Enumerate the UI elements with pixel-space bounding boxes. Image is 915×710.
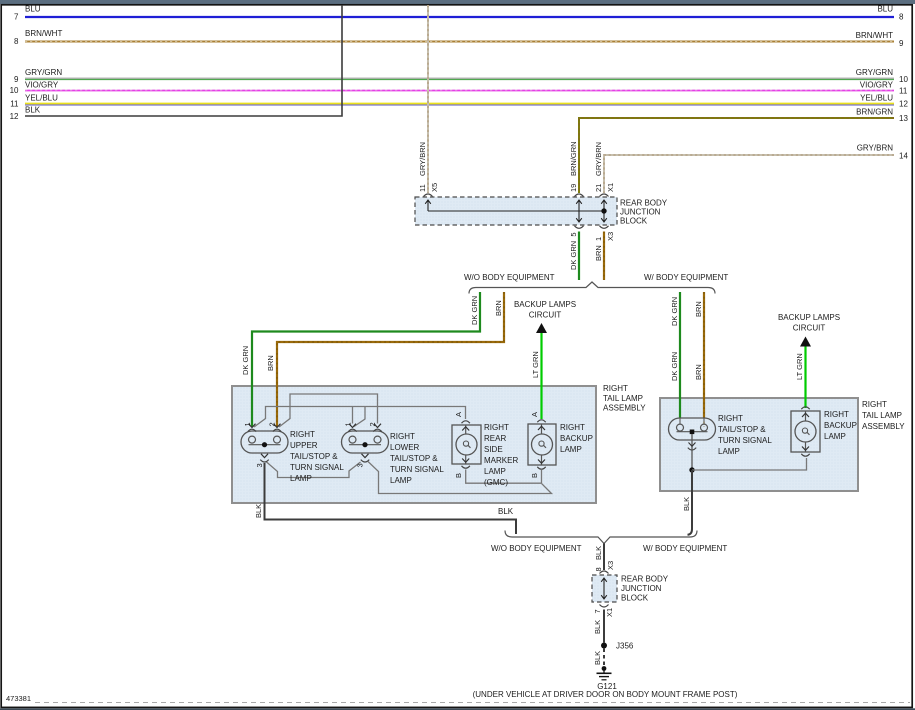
svg-text:BRN: BRN	[694, 301, 703, 317]
wire BLK 7 X1 below lower block	[593, 605, 614, 643]
svg-text:W/ BODY EQUIPMENT: W/ BODY EQUIPMENT	[644, 273, 728, 282]
svg-text:A: A	[530, 412, 539, 417]
wire GRY/BRN vertical from top border to junction block pin 11 X5	[418, 5, 439, 193]
rear body junction block (upper)	[415, 197, 668, 226]
svg-text:REAR BODY: REAR BODY	[620, 199, 668, 208]
svg-text:8: 8	[899, 13, 904, 22]
svg-text:BLU: BLU	[877, 5, 893, 14]
svg-text:X1: X1	[606, 183, 615, 192]
connector cups on block top edge	[424, 194, 609, 197]
svg-text:BACKUP LAMPS: BACKUP LAMPS	[514, 300, 576, 309]
marker lamp pin B	[454, 459, 470, 479]
svg-text:RIGHT: RIGHT	[390, 432, 415, 441]
wire BLU row 7/8	[14, 5, 904, 22]
junction block internal bus line	[428, 210, 604, 212]
svg-text:BACKUP: BACKUP	[560, 434, 593, 443]
svg-text:RIGHT: RIGHT	[290, 430, 315, 439]
svg-text:BLK: BLK	[682, 497, 691, 511]
svg-text:11: 11	[418, 184, 427, 192]
svg-text:BRN 1: BRN 1	[594, 237, 603, 261]
svg-text:LAMP: LAMP	[718, 447, 740, 456]
svg-text:X5: X5	[430, 183, 439, 192]
wire BLK out of right box	[682, 470, 692, 535]
svg-text:BLU: BLU	[25, 5, 41, 14]
wire DK GRN pin 5 below block	[569, 232, 579, 281]
svg-text:YEL/BLU: YEL/BLU	[860, 94, 893, 103]
svg-text:TAIL LAMP: TAIL LAMP	[862, 411, 902, 420]
svg-text:BLK: BLK	[254, 504, 263, 518]
wire BRN pin 1 X3 below block	[594, 232, 615, 281]
svg-text:11: 11	[899, 87, 908, 96]
svg-text:GRY/GRN: GRY/GRN	[856, 68, 893, 77]
svg-text:RIGHT: RIGHT	[484, 423, 509, 432]
wire BLK 8 X3 into lower junction block	[594, 544, 615, 574]
svg-text:ASSEMBLY: ASSEMBLY	[603, 404, 646, 413]
svg-text:BRN/WHT: BRN/WHT	[856, 31, 893, 40]
svg-text:BLOCK: BLOCK	[620, 217, 648, 226]
svg-text:BRN/GRN: BRN/GRN	[856, 108, 893, 117]
svg-text:12: 12	[899, 100, 908, 109]
page frame bottom band	[0, 708, 915, 710]
svg-text:TAIL/STOP &: TAIL/STOP &	[390, 454, 438, 463]
svg-text:BRN: BRN	[694, 364, 703, 380]
right tail lamp assembly box (left/large)	[232, 384, 646, 503]
svg-text:LT GRN: LT GRN	[531, 351, 540, 378]
svg-text:10: 10	[899, 75, 908, 84]
svg-text:8: 8	[14, 37, 19, 46]
junction block internal up-arrow at pin 11	[425, 200, 431, 211]
svg-text:12: 12	[10, 112, 19, 121]
backup lamps circuit arrow (left)	[536, 323, 547, 333]
svg-text:TAIL/STOP &: TAIL/STOP &	[290, 452, 338, 461]
wire BLK out of left box	[254, 463, 516, 534]
svg-text:BRN: BRN	[494, 300, 503, 316]
splice J356	[601, 642, 634, 651]
upper split brace	[469, 282, 715, 294]
lower merge brace	[505, 531, 697, 544]
right stadium bottom pin	[688, 434, 696, 470]
svg-text:BRN/GRN: BRN/GRN	[569, 141, 578, 176]
ground G121	[597, 666, 618, 691]
svg-text:J356: J356	[616, 642, 634, 651]
svg-text:ASSEMBLY: ASSEMBLY	[862, 422, 905, 431]
wire LT GRN (left backup lamp)	[531, 333, 542, 419]
right backup lamp pin A	[801, 407, 809, 417]
svg-text:11: 11	[10, 100, 19, 109]
backup lamps circuit arrow (right)	[800, 337, 811, 347]
svg-text:473381: 473381	[6, 694, 31, 703]
labels BRN/GRN 19 above junction block	[569, 141, 578, 192]
wire DK GRN right branch	[670, 292, 680, 424]
lamp: right rear side marker (GMC)	[452, 423, 518, 487]
upper lamp pin 3	[255, 454, 269, 468]
junction block internal double arrow at pin 21/1	[601, 200, 607, 222]
wire GRY/GRN row 9/10	[14, 68, 908, 84]
svg-text:GRY/BRN: GRY/BRN	[857, 144, 894, 153]
wire YEL/BLU row 11/12	[10, 94, 908, 109]
lamp: right tail/stop & turn signal (right box)	[669, 414, 773, 456]
svg-text:YEL/BLU: YEL/BLU	[25, 94, 58, 103]
svg-text:LAMP: LAMP	[560, 445, 582, 454]
svg-text:19: 19	[569, 184, 578, 192]
right backup lamp pin B	[801, 447, 809, 457]
svg-text:BACKUP: BACKUP	[824, 421, 857, 430]
right box internal junction dot	[689, 467, 694, 472]
svg-text:1: 1	[243, 422, 252, 426]
page footer dashed rule	[35, 702, 910, 704]
svg-text:LOWER: LOWER	[390, 443, 420, 452]
svg-text:BLK: BLK	[593, 651, 602, 665]
svg-text:JUNCTION: JUNCTION	[620, 208, 661, 217]
svg-text:GRY/BRN: GRY/BRN	[418, 142, 427, 176]
svg-text:RIGHT: RIGHT	[603, 384, 628, 393]
upper lamp pin 1	[243, 422, 256, 431]
svg-text:RIGHT: RIGHT	[560, 423, 585, 432]
svg-text:REAR BODY: REAR BODY	[621, 575, 669, 584]
svg-text:B: B	[454, 473, 463, 478]
lower lamp pin 3	[356, 454, 370, 468]
svg-text:21: 21	[594, 184, 603, 192]
left backup lamp pin A	[530, 412, 546, 430]
svg-text:BRN: BRN	[266, 355, 275, 371]
page frame top band	[0, 0, 915, 4]
lamp: right backup (left box)	[528, 423, 593, 465]
svg-text:BACKUP LAMPS: BACKUP LAMPS	[778, 313, 840, 322]
svg-text:W/O BODY EQUIPMENT: W/O BODY EQUIPMENT	[464, 273, 555, 282]
svg-text:DK GRN 5: DK GRN 5	[569, 232, 578, 270]
junction block internal double arrow at pin 19/5	[576, 200, 582, 222]
left backup lamp pin B	[530, 460, 546, 479]
connector cups on block bottom edge	[575, 226, 609, 229]
svg-text:LAMP: LAMP	[824, 432, 846, 441]
svg-text:BLK: BLK	[25, 106, 41, 115]
svg-text:W/O BODY EQUIPMENT: W/O BODY EQUIPMENT	[491, 544, 582, 553]
svg-text:CIRCUIT: CIRCUIT	[793, 324, 826, 333]
svg-text:3: 3	[255, 463, 264, 467]
svg-text:CIRCUIT: CIRCUIT	[529, 311, 562, 320]
wire GRY/BRN row 14 (right, turns down at x=604)	[604, 144, 908, 194]
svg-text:W/ BODY EQUIPMENT: W/ BODY EQUIPMENT	[643, 544, 727, 553]
svg-text:2: 2	[268, 422, 277, 426]
internal wire: upper pin2 to lower pin2 (bus y=394)	[279, 394, 378, 427]
svg-text:RIGHT: RIGHT	[718, 414, 743, 423]
svg-text:7: 7	[14, 13, 19, 22]
svg-text:BLOCK: BLOCK	[621, 594, 649, 603]
svg-text:TURN SIGNAL: TURN SIGNAL	[290, 463, 344, 472]
svg-text:VIO/GRY: VIO/GRY	[860, 81, 894, 90]
wire BRN/GRN row 13 (right, turns down at x=579)	[579, 108, 908, 194]
lamp: right upper tail/stop & turn signal	[241, 430, 344, 483]
upper lamp pin 2	[268, 422, 282, 431]
wire BRN left branch	[266, 292, 504, 427]
wire VIO/GRY row 10/11	[10, 81, 908, 96]
lower lamp pin 2	[368, 422, 382, 431]
internal wire: upper pin1 / lower pin1 / marker A (bus y=406.5)	[254, 407, 466, 428]
svg-text:10: 10	[10, 86, 19, 95]
svg-text:UPPER: UPPER	[290, 441, 318, 450]
svg-text:BLK: BLK	[593, 620, 602, 634]
svg-text:(GMC): (GMC)	[484, 478, 508, 487]
wire BRN right branch	[694, 292, 704, 427]
internal wire: upper pin3 to lower pin3 (bus y=477.5)	[266, 462, 361, 478]
svg-text:X1: X1	[605, 608, 614, 617]
svg-text:LT GRN: LT GRN	[795, 353, 804, 380]
svg-text:9: 9	[899, 39, 904, 48]
labels GRY/BRN 21 X1 above junction block	[594, 142, 615, 192]
svg-text:TAIL/STOP &: TAIL/STOP &	[718, 425, 766, 434]
junction dot inside block	[601, 208, 606, 213]
svg-text:RIGHT: RIGHT	[862, 400, 887, 409]
svg-text:GRY/GRN: GRY/GRN	[25, 68, 62, 77]
svg-text:8: 8	[594, 567, 603, 571]
internal wire to right backup lamp B	[692, 458, 807, 470]
internal wire: marker B to backup B (bus y=483.2)	[466, 470, 542, 484]
backup lamps circuit label (left)	[514, 300, 576, 320]
svg-text:TURN SIGNAL: TURN SIGNAL	[718, 436, 772, 445]
svg-text:GRY/BRN: GRY/BRN	[594, 142, 603, 176]
lower lamp pin 1	[344, 422, 357, 431]
wire DK GRN left branch	[241, 292, 480, 427]
svg-text:B: B	[530, 473, 539, 478]
svg-text:BLK: BLK	[498, 507, 514, 516]
svg-text:BLK: BLK	[594, 546, 603, 560]
wire BLK row 12 (left, turns up at x=342 to top border)	[10, 5, 342, 121]
lower block internal double arrow	[601, 578, 607, 599]
svg-text:LAMP: LAMP	[484, 467, 506, 476]
svg-text:DK GRN: DK GRN	[470, 296, 479, 325]
svg-text:DK GRN: DK GRN	[241, 346, 250, 375]
svg-text:2: 2	[368, 422, 377, 426]
svg-text:(UNDER VEHICLE AT DRIVER DOOR: (UNDER VEHICLE AT DRIVER DOOR ON BODY MO…	[473, 690, 738, 699]
svg-text:9: 9	[14, 75, 19, 84]
marker lamp pin A	[454, 412, 470, 431]
backup lamps circuit label (right)	[778, 313, 840, 333]
lamp: right lower tail/stop & turn signal	[342, 431, 445, 485]
internal wire: lower pin3 to marker/backup B (bus y=493.5)	[368, 462, 552, 494]
svg-text:LAMP: LAMP	[290, 474, 312, 483]
svg-text:SIDE: SIDE	[484, 445, 503, 454]
svg-text:DK GRN: DK GRN	[670, 352, 679, 381]
svg-text:14: 14	[899, 152, 908, 161]
svg-text:MARKER: MARKER	[484, 456, 518, 465]
svg-text:TAIL LAMP: TAIL LAMP	[603, 394, 643, 403]
wire LT GRN (right backup lamp)	[795, 347, 806, 409]
svg-text:13: 13	[899, 114, 908, 123]
wire BRN/WHT row 8/9	[14, 29, 904, 48]
right tail lamp assembly box (right/small)	[660, 398, 905, 491]
svg-text:X3: X3	[606, 561, 615, 570]
svg-text:1: 1	[344, 422, 353, 426]
svg-text:TURN SIGNAL: TURN SIGNAL	[390, 465, 444, 474]
lamp: right backup (right box)	[791, 410, 857, 452]
svg-text:RIGHT: RIGHT	[824, 410, 849, 419]
svg-text:REAR: REAR	[484, 434, 506, 443]
svg-text:BRN/WHT: BRN/WHT	[25, 29, 62, 38]
svg-text:DK GRN: DK GRN	[670, 297, 679, 326]
svg-text:7: 7	[593, 609, 602, 613]
svg-text:JUNCTION: JUNCTION	[621, 584, 662, 593]
wire BLK dashed to ground	[593, 649, 604, 666]
svg-text:VIO/GRY: VIO/GRY	[25, 81, 59, 90]
svg-text:X3: X3	[606, 232, 615, 241]
svg-text:A: A	[454, 412, 463, 417]
rear body junction block (lower)	[592, 575, 669, 603]
svg-text:3: 3	[356, 463, 365, 467]
svg-text:LAMP: LAMP	[390, 476, 412, 485]
